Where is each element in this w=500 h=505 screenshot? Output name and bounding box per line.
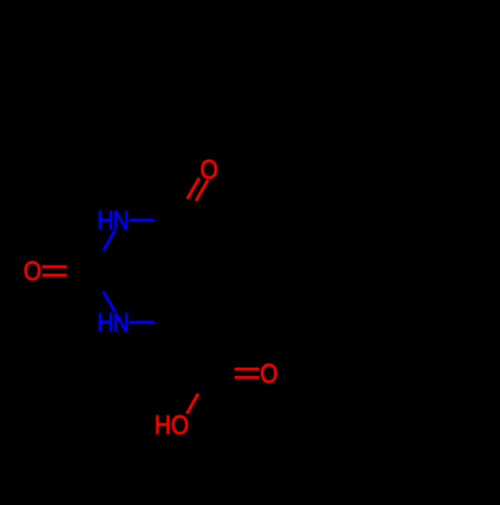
double bond C2=O left (O half, red, upper line) bbox=[42, 265, 67, 268]
bond C2-N3 (N half, blue) bbox=[103, 291, 115, 311]
bond N1-C2 (N half, blue) bbox=[103, 231, 115, 251]
svg-text:H: H bbox=[154, 410, 171, 440]
double bond C6=O top (O half, red, outer line) bbox=[187, 178, 199, 199]
double bond C6=O top (O half, red, inner line) bbox=[196, 180, 208, 201]
bond N1-C6 (N half, blue) bbox=[129, 219, 154, 222]
svg-text:N: N bbox=[113, 206, 130, 236]
svg-text:N: N bbox=[113, 308, 130, 338]
svg-text:H: H bbox=[97, 308, 114, 338]
bond O(H)-C carboxyl (O half, red) bbox=[187, 394, 198, 414]
bond N3-C4 (N half, blue) bbox=[129, 321, 154, 324]
svg-text:O: O bbox=[200, 155, 218, 185]
svg-text:O: O bbox=[260, 359, 278, 389]
double bond C2=O left (O half, red, lower line) bbox=[42, 274, 67, 277]
double bond C=O carboxyl (O half, red, lower line) bbox=[234, 376, 259, 379]
double bond C=O carboxyl (O half, red, upper line) bbox=[234, 368, 259, 371]
svg-text:H: H bbox=[97, 206, 114, 236]
svg-text:O: O bbox=[23, 256, 41, 286]
svg-text:O: O bbox=[171, 410, 189, 440]
